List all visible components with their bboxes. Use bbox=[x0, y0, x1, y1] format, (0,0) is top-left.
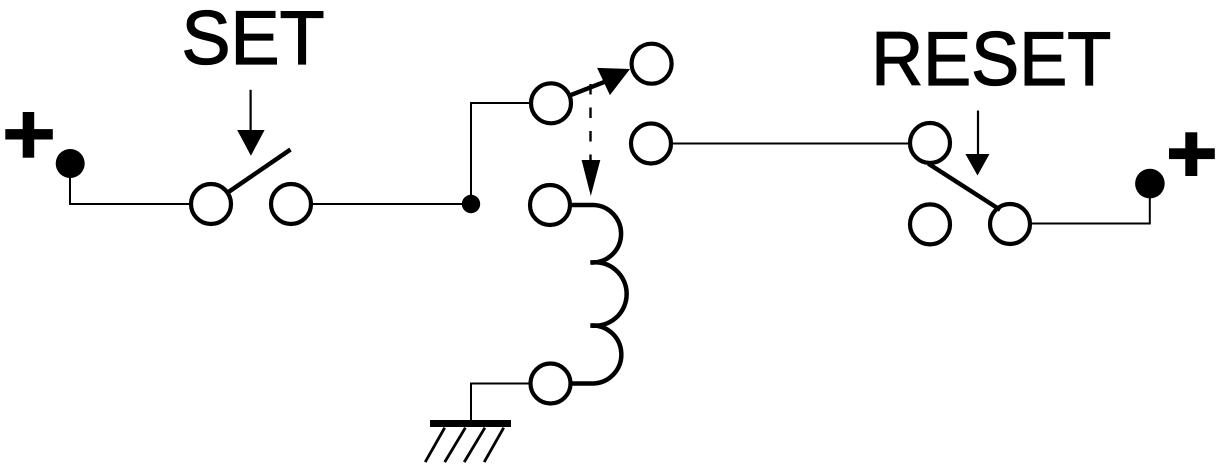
wire junction up to relay common contact bbox=[471, 103, 529, 204]
RESET switch lever bbox=[928, 164, 1000, 210]
relay contact circle to RESET (middle right) bbox=[631, 124, 671, 164]
terminal dot (left) bbox=[56, 149, 85, 178]
wire from SET switch to junction bbox=[313, 203, 471, 205]
ground symbol bbox=[425, 420, 511, 462]
wire coil bottom to ground bbox=[471, 384, 529, 421]
SET switch contact circle (left) bbox=[191, 184, 231, 224]
relay moving arm with arrowhead bbox=[570, 68, 631, 96]
junction dot bbox=[462, 195, 480, 213]
arrow pointing at SET switch bbox=[237, 90, 264, 156]
relay common contact circle bbox=[531, 83, 571, 123]
wire from left terminal to SET switch bbox=[70, 166, 189, 204]
wire RESET switch to right terminal bbox=[1032, 186, 1150, 224]
relay normally-open contact circle (top right, unconnected) bbox=[632, 44, 672, 84]
svg-text:RESET: RESET bbox=[871, 17, 1111, 102]
relay coil bottom terminal circle bbox=[531, 364, 571, 404]
plus terminal symbol (left) bbox=[5, 112, 53, 158]
SET switch contact circle (right) bbox=[271, 184, 311, 224]
RESET switch bottom-right contact circle bbox=[990, 204, 1030, 244]
dashed mechanical link with arrowhead bbox=[582, 84, 601, 196]
arrow pointing at RESET switch bbox=[965, 111, 989, 176]
relay coil windings bbox=[572, 205, 627, 384]
plus terminal symbol (right) bbox=[1169, 132, 1215, 176]
SET switch lever bbox=[229, 150, 291, 193]
terminal dot (right) bbox=[1135, 169, 1165, 199]
wire from relay contact to RESET switch bbox=[673, 143, 908, 145]
RESET switch bottom-left contact circle bbox=[910, 204, 950, 244]
RESET switch top contact circle bbox=[910, 123, 950, 163]
relay coil top terminal circle bbox=[530, 185, 570, 225]
svg-text:SET: SET bbox=[182, 0, 325, 81]
